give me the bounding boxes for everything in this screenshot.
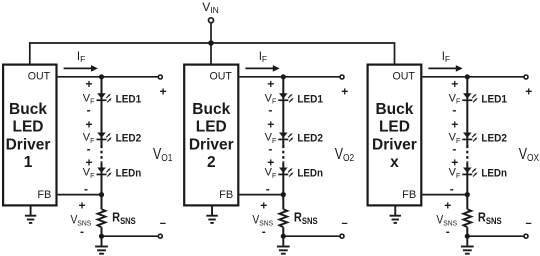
svg-text:LED1: LED1 [481,93,507,105]
ground under Ux [390,207,401,223]
svg-text:LED2: LED2 [297,133,323,145]
svg-text:-: - [452,103,456,117]
wire string bottom to terminal (1) [102,235,159,237]
LED LEDn (x) light arrows [472,168,478,177]
LED LEDn (1) light arrows [106,168,112,177]
wire LED string anode segment (2) [282,77,284,146]
wire resistor bottom (2) [282,227,284,236]
svg-text:2: 2 [207,154,216,171]
LED LEDn (1) symbol [97,168,107,176]
net label VO1 [153,145,172,165]
value label VSNS (2) [252,214,273,228]
resistor RSNS (2) [279,209,287,227]
resistor RSNS (1) [98,209,106,227]
wire resistor bottom (x) [466,227,468,236]
svg-text:+: + [85,77,92,91]
svg-text:-: - [446,224,450,238]
svg-text:LEDn: LEDn [481,168,507,180]
junction dot string bottom (1) [99,234,104,239]
LED LED2 (2) light arrows [288,133,294,142]
svg-text:VIN: VIN [202,0,219,15]
svg-text:+: + [260,198,267,212]
svg-text:FB: FB [37,189,51,201]
svg-text:Buck: Buck [192,101,230,118]
value label VSNS (x) [436,214,457,228]
svg-text:VO2: VO2 [335,145,354,165]
junction dot node FB1 [99,192,104,197]
value label VSNS (1) [71,214,92,228]
svg-text:+: + [451,118,458,132]
svg-text:+: + [85,118,92,132]
svg-text:+: + [160,84,167,98]
wire string bottom to terminal (x) [467,235,524,237]
junction dot VIN bus [208,40,214,46]
svg-text:-: - [87,103,91,117]
LED LEDn (x) symbol [462,168,472,176]
junction dot node FBx [465,192,470,197]
junction dot node FB2 [281,192,286,197]
wire OUT1 to LED string and terminal [58,76,159,78]
dotted wire for omitted LEDs (1) [100,146,102,163]
wire OUTx to LED string and terminal [422,76,524,78]
VIN terminal [209,18,214,23]
ground under U1 [25,207,36,223]
Ux label Buck LED Driver x [372,101,417,171]
svg-text:LED2: LED2 [481,133,507,145]
terminal VO1- [158,234,162,238]
svg-text:LEDn: LEDn [116,168,142,180]
LED LED1 (x) light arrows [472,94,478,103]
svg-text:+: + [451,77,458,91]
junction dot node OUTx [465,74,470,79]
svg-text:Buck: Buck [9,101,47,118]
svg-text:x: x [390,154,399,171]
junction dot node OUT1 [99,74,104,79]
svg-text:VF: VF [265,167,277,180]
svg-text:RSNS: RSNS [478,210,502,226]
LED LED2 (1) symbol [97,133,107,141]
wire string bottom to terminal (2) [283,235,340,237]
dotted wire for omitted LEDs (2) [282,146,284,163]
LED LED2 (1) light arrows [106,133,112,142]
svg-text:IF: IF [442,51,450,64]
resistor RSNS (x) [463,209,471,227]
svg-text:VO1: VO1 [153,145,172,165]
LED LED2 (x) symbol [462,133,472,141]
svg-text:RSNS: RSNS [294,210,318,226]
ground string 2 bottom [277,238,290,253]
LED LED1 (2) light arrows [288,94,294,103]
svg-text:-: - [268,142,272,156]
svg-text:Driver: Driver [6,136,51,153]
LED LED1 (2) symbol [278,93,288,101]
wire FB2 [239,194,283,196]
svg-text:+: + [525,84,532,98]
wire OUT2 to LED string and terminal [239,76,340,78]
terminal VO2+ [340,75,344,79]
terminal VOx+ [524,75,528,79]
svg-text:-: - [268,103,272,117]
wire VIN drop [210,23,212,65]
net label VO2 [335,145,354,165]
wire LED string anode segment (1) [101,77,103,146]
svg-text:OUT: OUT [393,71,416,83]
svg-text:1: 1 [24,154,33,171]
wire LED string cathode segment (1) [101,162,103,209]
svg-text:+: + [444,198,451,212]
ground string 1 bottom [95,238,108,253]
svg-text:+: + [267,77,274,91]
buck LED driver block Ux [368,65,422,206]
ground under U2 [206,207,217,223]
terminal VOx- [524,234,528,238]
svg-text:OUT: OUT [28,71,51,83]
buck LED driver block U2 [184,65,238,206]
svg-text:-: - [452,142,456,156]
value label RSNS (x) [478,210,502,226]
svg-text:-: - [80,224,84,238]
current arrow IF (1) [64,67,93,69]
svg-text:LED: LED [196,119,227,136]
junction dot string bottom (x) [465,234,470,239]
svg-text:LED: LED [379,119,410,136]
svg-text:−: − [525,218,531,230]
svg-text:-: - [87,142,91,156]
svg-text:IF: IF [77,51,85,64]
junction dot node OUT2 [281,74,286,79]
svg-text:IF: IF [259,51,267,64]
wire LED string anode segment (x) [466,77,468,146]
wire VIN bus [30,43,395,65]
svg-text:Driver: Driver [189,136,234,153]
LED LED1 (1) symbol [97,93,107,101]
dotted wire for omitted LEDs (x) [466,146,468,163]
svg-text:-: - [262,224,266,238]
svg-text:OUT: OUT [210,71,233,83]
svg-text:Buck: Buck [375,101,413,118]
svg-text:−: − [341,218,347,230]
svg-text:+: + [78,198,85,212]
svg-text:−: − [160,218,166,230]
LED LEDn (2) symbol [278,168,288,176]
wire resistor bottom (1) [101,227,103,236]
svg-text:+: + [267,118,274,132]
LED LED2 (x) light arrows [472,133,478,142]
svg-text:LED2: LED2 [116,133,142,145]
value label RSNS (1) [112,210,136,226]
wire LED string cathode segment (x) [466,162,468,209]
ground string x bottom [461,238,474,253]
LED LEDn (2) light arrows [288,168,294,177]
current arrow IF (x) [428,67,457,69]
LED LED1 (1) light arrows [106,94,112,103]
U1 label Buck LED Driver 1 [6,101,51,171]
svg-text:LED: LED [13,119,44,136]
value label RSNS (2) [294,210,318,226]
net label VOx [519,145,540,165]
svg-text:LED1: LED1 [116,93,142,105]
svg-text:VOX: VOX [519,145,540,165]
svg-text:LED1: LED1 [297,93,323,105]
svg-text:Driver: Driver [372,136,417,153]
buck LED driver block U1 [3,65,56,206]
wire FBx [422,194,467,196]
svg-text:VF: VF [83,167,95,180]
svg-text:VF: VF [449,167,461,180]
current arrow IF (2) [245,67,274,69]
svg-text:+: + [341,84,348,98]
junction dot string bottom (2) [281,234,286,239]
svg-text:FB: FB [402,189,416,201]
U2 label Buck LED Driver 2 [189,101,234,171]
svg-text:FB: FB [219,189,233,201]
LED LED1 (x) symbol [462,93,472,101]
terminal VO1+ [158,75,162,79]
wire FB1 [58,194,102,196]
svg-text:LEDn: LEDn [297,168,323,180]
svg-text:RSNS: RSNS [112,210,136,226]
wire LED string cathode segment (2) [282,162,284,209]
terminal VO2- [340,234,344,238]
LED LED2 (2) symbol [278,133,288,141]
